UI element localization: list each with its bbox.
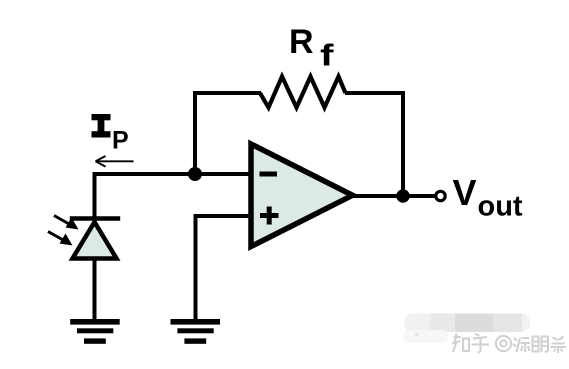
char peng — [533, 337, 549, 353]
char @ — [496, 336, 511, 351]
svg-text:R: R — [289, 23, 314, 61]
light arrow 1 — [54, 216, 79, 230]
photodiode D1 triangle — [73, 222, 117, 259]
wire photodiode bottom — [93, 257, 97, 321]
light arrow 2 — [48, 232, 73, 246]
svg-text:f: f — [320, 38, 334, 73]
char hu — [472, 334, 490, 353]
node junction output — [396, 189, 409, 202]
op-amp minus sign — [260, 172, 278, 177]
resistor Rf zigzag — [260, 77, 346, 108]
wire output — [351, 194, 435, 198]
label Ip (slab-serif I drawn as rects) — [92, 114, 111, 138]
svg-text:V: V — [453, 172, 477, 213]
ground G2 — [171, 319, 221, 344]
char ji — [513, 338, 530, 352]
wire feedback top right segment — [345, 91, 405, 95]
wire non-inverting input vertical — [194, 214, 198, 321]
ground G1 — [70, 319, 120, 344]
watermark zhihu text (drawn glyphs) — [452, 334, 566, 354]
op-amp U1 — [251, 144, 353, 247]
current arrow Ip — [96, 156, 134, 167]
op-amp plus sign — [260, 207, 279, 225]
photodiode cathode bar — [70, 216, 120, 221]
char ju — [551, 337, 567, 354]
char zhi — [452, 334, 469, 353]
svg-text:P: P — [112, 127, 129, 155]
node junction input — [188, 167, 202, 181]
wire non-inverting input horizontal — [196, 214, 252, 218]
wire feedback right vertical — [401, 91, 405, 196]
watermark blur patch — [404, 314, 530, 344]
wire feedback top left segment — [193, 91, 261, 95]
wire photodiode top — [93, 172, 97, 219]
wire inverting input — [93, 172, 251, 176]
svg-text:out: out — [478, 190, 523, 222]
output terminal circle — [436, 191, 445, 200]
wire feedback left vertical — [193, 93, 197, 176]
